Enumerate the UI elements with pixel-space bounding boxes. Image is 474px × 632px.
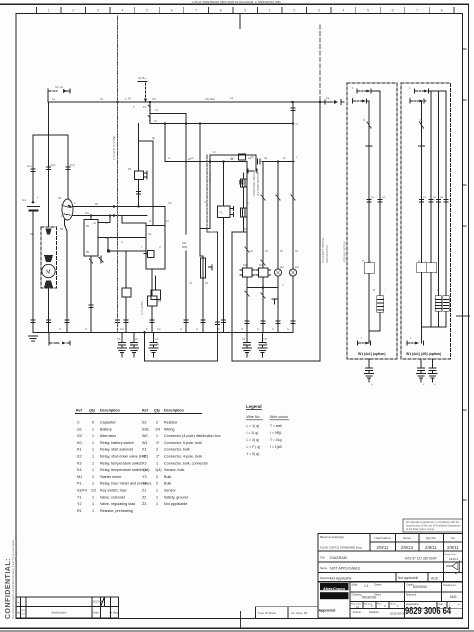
svg-text:1: 1 [92, 441, 94, 445]
box2 capacitor b [428, 359, 437, 382]
svg-text:C2: C2 [134, 337, 138, 341]
svg-text:P1: P1 [77, 482, 82, 486]
svg-text:1a: 1a [326, 96, 330, 100]
wire S1-30 to K1 [164, 207, 166, 226]
svg-text:C: C [287, 327, 289, 331]
box2 wire 4 resistor [443, 91, 449, 327]
svg-text:Battery: Battery [100, 427, 112, 431]
svg-text:Modification: Modification [52, 611, 67, 615]
TITLEBLOCK [318, 534, 463, 619]
svg-text:Wire colour: Wire colour [270, 415, 289, 419]
svg-text:X1: X1 [142, 448, 147, 452]
wire K0 30 out [98, 237, 146, 239]
small boxes left of connector [239, 154, 246, 160]
capacitor C5 [258, 333, 267, 358]
svg-text:2: 2 [156, 482, 158, 486]
svg-text:4: 4 [343, 8, 345, 12]
capacitor C2 [130, 333, 139, 358]
svg-text:Valve, regulating load: Valve, regulating load [100, 502, 135, 506]
wire x217 to loop A [217, 232, 219, 361]
confidential vertical text [5, 539, 18, 619]
option box W1 dashed [347, 83, 397, 359]
svg-text:Ca: Ca [120, 327, 124, 331]
svg-text:H2: H2 [295, 265, 299, 269]
svg-text:of the Atlas Copco Group.: of the Atlas Copco Group. [406, 528, 435, 531]
svg-text:P1: P1 [128, 167, 132, 171]
svg-text:Y3: Y3 [142, 475, 147, 479]
svg-text:Sensor: Sensor [164, 489, 176, 493]
svg-text:Drawing no.: Drawing no. [444, 584, 457, 587]
wire key switch feeder [67, 135, 69, 199]
wire relay link [247, 287, 278, 289]
svg-text:AXS 57 137 330 ISSR: AXS 57 137 330 ISSR [405, 557, 437, 561]
svg-text:1: 1 [92, 434, 94, 438]
svg-text:Format: Format [353, 611, 361, 614]
battery minus connector below bus [49, 333, 70, 346]
box1 wire right [377, 91, 384, 331]
wire key switch lower contact [60, 220, 67, 333]
svg-text:6: 6 [171, 8, 173, 12]
svg-text:C: C [196, 327, 198, 331]
svg-text:Not Applicable: Not Applicable [330, 577, 352, 581]
svg-text:Starter motor: Starter motor [100, 475, 122, 479]
svg-text:3: 3 [318, 8, 320, 12]
box2 connector lower [410, 99, 426, 103]
wire K0 ground [89, 256, 93, 332]
svg-text:2: 2 [156, 475, 158, 479]
connector tick G1 [27, 164, 35, 172]
svg-text:Wire No.: Wire No. [247, 415, 261, 419]
svg-text:K3: K3 [259, 263, 263, 267]
bus3 [165, 161, 247, 163]
svg-text:Ref: Ref [76, 409, 83, 413]
long wire x200 [199, 124, 201, 257]
svg-text:8: 8 [220, 8, 222, 12]
svg-text:K0: K0 [85, 211, 89, 215]
svg-text:w: w [121, 241, 123, 244]
svg-text:Ca: Ca [157, 327, 161, 331]
svg-text:2015.08.08: 2015.08.08 [390, 612, 405, 616]
svg-text:50: 50 [95, 202, 99, 206]
fuse F2 box [148, 296, 162, 306]
svg-text:1: 1 [92, 475, 94, 479]
svg-text:X4: X4 [142, 468, 147, 472]
box2 wire 2 [427, 91, 437, 327]
svg-text:ision: ision [22, 614, 27, 616]
wire loop B bottom [232, 360, 320, 362]
svg-text:2: 2 [293, 8, 295, 12]
wire hourmeter to S1 bus [138, 180, 140, 207]
svg-text:Z2: Z2 [142, 495, 146, 499]
svg-text:Used before: Used before [374, 536, 391, 540]
svg-text:W0 (4x): W0 (4x) [208, 173, 212, 182]
dash-dot enclosure panel [207, 155, 218, 232]
svg-text:Relay, shut-down valve (H.P.): Relay, shut-down valve (H.P.) [100, 455, 148, 459]
svg-text:1/2: 1/2 [91, 489, 96, 493]
wire key switch contact 30 [73, 206, 166, 208]
svg-text:2: 2 [156, 448, 158, 452]
svg-text:1: 1 [269, 8, 271, 12]
svg-text:F4: F4 [143, 105, 147, 109]
svg-text:C: C [241, 327, 243, 331]
svg-text:C: C [59, 327, 61, 331]
svg-text:Alternator: Alternator [100, 434, 117, 438]
svg-text:H1: H1 [280, 265, 284, 269]
sensor connector S3 [241, 155, 258, 232]
svg-text:M1: M1 [30, 232, 34, 236]
svg-text:Key switch, fuse: Key switch, fuse [100, 489, 127, 493]
svg-text:1: 1 [92, 502, 94, 506]
svg-text:0.75-GY/0.75-GY/BK: 0.75-GY/0.75-GY/BK [112, 136, 116, 160]
junction arrows [113, 205, 117, 208]
svg-text:Valve, solenoid: Valve, solenoid [100, 495, 125, 499]
svg-text:Connector, bulk: Connector, bulk [164, 448, 190, 452]
wire K2 ground [245, 277, 249, 332]
svg-text:L = 3( q): L = 3( q) [247, 438, 260, 442]
svg-text:9: 9 [244, 8, 246, 12]
svg-text:C1: C1 [117, 337, 121, 341]
relay K0 coil box [84, 211, 98, 256]
svg-text:Qty: Qty [154, 409, 160, 413]
wire loop B feed [232, 231, 247, 233]
svg-text:S1: S1 [58, 196, 62, 200]
svg-text:X: X [362, 259, 364, 263]
wire S1-15 to K1 [145, 223, 147, 226]
solenoid valve Y1 [218, 162, 234, 333]
svg-text:1: 1 [92, 495, 94, 499]
svg-text:Connector, 9-pole, bulk: Connector, 9-pole, bulk [164, 441, 202, 445]
svg-text:Y1: Y1 [219, 211, 223, 215]
svg-text:No: No [451, 536, 455, 540]
svg-text:S2: S2 [142, 421, 147, 425]
striped resistor R1 [200, 256, 212, 332]
svg-text:Safety, ground: Safety, ground [164, 495, 188, 499]
wire fuse to ground bus [150, 306, 154, 332]
svg-text:C3: C3 [155, 337, 159, 341]
node junction on bus [116, 101, 118, 103]
svg-text:80206910: 80206910 [413, 585, 427, 589]
relay K2 [240, 162, 255, 278]
revision table [16, 597, 120, 618]
wire key switch contact 15 [73, 215, 148, 217]
svg-text:1: 1 [156, 495, 158, 499]
svg-text:G2 B+: G2 B+ [138, 76, 146, 80]
svg-text:G1: G1 [22, 198, 26, 202]
svg-text:2/9/11: 2/9/11 [425, 545, 437, 550]
svg-text:30: 30 [105, 236, 109, 240]
box1 wire left [365, 101, 375, 331]
connector ticks above bus left [31, 320, 120, 323]
wire supply stub [47, 91, 49, 102]
svg-text:F5: F5 [152, 97, 156, 101]
battery G1 [22, 195, 40, 211]
wire starter ground [48, 288, 50, 332]
svg-text:1919 2: 1919 2 [449, 557, 459, 561]
wire bus15 end jog [290, 123, 293, 125]
svg-text:2: 2 [72, 8, 74, 12]
svg-text:C4: C4 [242, 337, 246, 341]
svg-text:1(x): 1(x) [51, 163, 56, 167]
long wire x186 [182, 114, 188, 333]
svg-text:X3: X3 [142, 461, 147, 465]
node T junction [33, 134, 68, 136]
svg-text:Connector (4-pole) distributio: Connector (4-pole) distribution box [164, 434, 221, 438]
svg-text:K0: K0 [77, 441, 82, 445]
circuit breaker F5 [148, 114, 150, 124]
svg-text:1: 1 [92, 468, 94, 472]
svg-text:Standard: Standard [369, 611, 379, 614]
svg-text:7: 7 [195, 8, 197, 12]
svg-text:DIAGRAM: DIAGRAM [330, 556, 347, 560]
connector tick M1 [47, 163, 56, 170]
svg-text:FLUID COPCO STANDARD Dwg: FLUID COPCO STANDARD Dwg [320, 546, 362, 550]
svg-text:F: F [146, 327, 148, 331]
svg-text:G2: G2 [77, 434, 82, 438]
svg-text:1:1: 1:1 [364, 584, 369, 588]
svg-text:K4: K4 [77, 468, 82, 472]
svg-text:4: 4 [122, 8, 124, 12]
svg-text:W1 (4x1) (4G) (option): W1 (4x1) (4G) (option) [406, 352, 441, 356]
vertical wire labels [112, 136, 347, 315]
box1 connector lower [353, 99, 369, 103]
aux device box [122, 251, 131, 332]
option box W2 dashed [401, 83, 451, 359]
svg-text:Relay, start solenoid: Relay, start solenoid [100, 448, 133, 452]
svg-text:Title: Title [320, 556, 325, 560]
svg-text:AND OPTIONS: AND OPTIONS [325, 245, 329, 263]
wire x165 drop to bus3 [164, 124, 166, 162]
svg-text:1: 1 [156, 489, 158, 493]
svg-text:K3: K3 [77, 461, 82, 465]
wire option return [319, 102, 321, 361]
svg-text:1(x): 1(x) [27, 164, 32, 168]
svg-text:I = 9R(L: I = 9R(L [270, 431, 282, 435]
starter motor M1 dashed box [30, 227, 57, 288]
svg-text:K2: K2 [243, 263, 247, 267]
box1 capacitor [365, 359, 374, 382]
svg-text:W1: W1 [142, 441, 148, 445]
svg-text:Approved: Approved [319, 609, 336, 613]
svg-text:C5: C5 [264, 337, 268, 341]
svg-text:C: C [77, 421, 80, 425]
bus 15 [150, 123, 290, 125]
svg-text:Resistor, preheating: Resistor, preheating [100, 509, 133, 513]
separator dash line above bus [319, 25, 321, 102]
svg-text:8: 8 [441, 8, 443, 12]
dash-dot separator x117 [117, 16, 119, 332]
svg-text:M1: M1 [77, 475, 82, 479]
svg-text:Wiring: Wiring [164, 427, 174, 431]
alternator B+ stub [128, 76, 147, 109]
lamp H1 [274, 162, 284, 277]
svg-text:1: 1 [156, 434, 158, 438]
bus +24V top [48, 101, 325, 103]
relay K3 [256, 162, 271, 278]
svg-text:or disclosed without written p: or disclosed without written permission … [15, 540, 18, 619]
svg-text:87: 87 [105, 221, 109, 225]
wire K3 ground [261, 277, 265, 332]
svg-text:4a: 4a [264, 156, 268, 160]
box2 top feed wire [429, 90, 447, 92]
svg-text:K1: K1 [148, 232, 152, 236]
svg-text:NOT APPLICABLE: NOT APPLICABLE [330, 567, 361, 571]
svg-text:Capacitor: Capacitor [100, 421, 117, 425]
svg-text:9829 3006 64: 9829 3006 64 [405, 605, 451, 617]
svg-text:Relay, temperature switch: Relay, temperature switch [100, 461, 142, 465]
svg-text:I = 2( q): I = 2( q) [247, 431, 259, 435]
svg-text:Connector, 4-pole, bulk: Connector, 4-pole, bulk [164, 455, 202, 459]
svg-text:Print: Print [377, 603, 382, 606]
svg-text:1: 1 [92, 455, 94, 459]
svg-text:3: 3 [97, 8, 99, 12]
wire jog [139, 140, 154, 142]
svg-text:AtlasCopco: AtlasCopco [322, 586, 346, 591]
wire H1 ground [276, 276, 280, 332]
svg-text:1b: 1b [188, 157, 192, 161]
svg-text:Y4: Y4 [142, 482, 147, 486]
svg-text:Drawn: Drawn [375, 584, 383, 587]
svg-text:I = 1(zB: I = 1(zB [270, 445, 283, 449]
box2 wire 1 [417, 101, 427, 327]
svg-text:2b: 2b [152, 136, 156, 140]
svg-text:Description: Description [164, 409, 184, 413]
svg-text:1: 1 [92, 482, 94, 486]
titleblock left extension cells [256, 607, 319, 618]
box1 connector upper [357, 89, 380, 93]
wire battery feeder [48, 102, 50, 135]
svg-text:1: 1 [92, 461, 94, 465]
svg-text:Qty: Qty [89, 409, 95, 413]
svg-text:Y1: Y1 [77, 495, 82, 499]
svg-text:5a: 5a [244, 227, 248, 231]
svg-text:Name: Name [320, 566, 327, 570]
connector arrow to options [325, 96, 344, 105]
svg-text:Z1: Z1 [142, 489, 146, 493]
wire starter feeder [48, 135, 50, 227]
svg-text:1: 1 [92, 427, 94, 431]
svg-text:X2: X2 [142, 455, 147, 459]
svg-text:Bulk: Bulk [164, 482, 171, 486]
svg-text:W1 (4x1) (option): W1 (4x1) (option) [358, 352, 386, 356]
svg-text:1(x): 1(x) [70, 163, 75, 167]
svg-text:K1: K1 [77, 448, 82, 452]
svg-text:r: r [385, 288, 386, 292]
box2 wire 3 resistor [436, 91, 442, 327]
lamp H2 [289, 102, 299, 276]
svg-text:5: 5 [146, 8, 148, 12]
svg-text:C: C [272, 327, 274, 331]
junction dot loopA [143, 331, 146, 334]
wire tap 113 [150, 113, 186, 115]
svg-text:C: C [257, 327, 259, 331]
misc small labels [59, 96, 289, 331]
OPTION BOXES [347, 83, 451, 382]
option labels small [352, 86, 439, 292]
svg-text:R1: R1 [77, 509, 82, 513]
key switch S1 [58, 196, 73, 220]
svg-text:FOR W1 OPTION: FOR W1 OPTION [343, 241, 347, 262]
svg-text:Resistor: Resistor [164, 421, 178, 425]
wire K0 aux with junction square [107, 250, 110, 253]
svg-text:Checking: Checking [352, 594, 363, 597]
wire battery minus [32, 212, 34, 333]
svg-text:1: 1 [156, 502, 158, 506]
svg-text:S: S [363, 118, 365, 122]
svg-text:2a: 2a [230, 157, 234, 161]
svg-text:1: 1 [92, 509, 94, 513]
svg-text:Not applicable: Not applicable [398, 576, 418, 580]
box1 bottom join [358, 331, 381, 345]
wire battery drop [32, 135, 34, 203]
svg-text:Type Of Sheet: Type Of Sheet [258, 611, 276, 615]
svg-text:Prong Class: Prong Class [445, 553, 458, 556]
wire loop A [145, 333, 218, 362]
svg-text:L = 1( q): L = 1( q) [247, 424, 260, 428]
svg-text:Approved: Approved [406, 594, 417, 597]
relay K1 box [144, 226, 165, 270]
svg-text:2/9/11: 2/9/11 [447, 545, 459, 550]
svg-text:Legend: Legend [246, 404, 262, 409]
svg-text:Based on drawing(s): Based on drawing(s) [320, 535, 344, 539]
fuse F1 connector at top of supply [48, 85, 70, 93]
svg-text:C: C [85, 327, 87, 331]
svg-text:1: 1 [48, 8, 50, 12]
svg-text:Sensor, bulk: Sensor, bulk [164, 468, 184, 472]
svg-text:Date: Date [93, 611, 99, 615]
svg-text:Bulk: Bulk [164, 475, 171, 479]
svg-text:C: C [218, 327, 220, 331]
svg-text:Relay, battery switch: Relay, battery switch [100, 441, 134, 445]
svg-text:C: C [180, 327, 182, 331]
atlas copco logo [319, 583, 349, 613]
svg-text:No: No [17, 611, 21, 615]
svg-text:7: 7 [416, 8, 418, 12]
svg-text:X: X [418, 259, 420, 263]
svg-text:X1 1a: X1 1a [55, 85, 63, 89]
svg-text:2/9/11: 2/9/11 [377, 545, 389, 550]
svg-text:5: 5 [92, 421, 94, 425]
prohibited substances note box [403, 519, 463, 532]
box2 bottom join [407, 327, 446, 345]
svg-text:Connector, bulk, connector: Connector, bulk, connector [164, 461, 209, 465]
svg-text:1*: 1* [156, 455, 160, 459]
svg-text:TO SAFETY SWITCH: TO SAFETY SWITCH [321, 238, 325, 263]
svg-text:Z3: Z3 [142, 502, 146, 506]
svg-text:Int./Appr.: Int./Appr. [109, 611, 120, 615]
ground bus [33, 332, 293, 334]
diode symbol [272, 299, 277, 304]
svg-text:R: R [373, 288, 375, 292]
svg-text:Memo: Memo [375, 594, 382, 597]
svg-text:+: + [37, 195, 39, 199]
svg-text:MLB: MLB [450, 595, 457, 599]
scattered wire number labels [52, 97, 451, 386]
wire K1 to fuse [151, 269, 153, 296]
wire K0 87 jog up [98, 222, 110, 224]
svg-text:1(4): 1(4) [155, 468, 162, 472]
svg-text:M: M [46, 270, 50, 276]
svg-text:Scale: Scale [352, 584, 359, 587]
circuit breaker F4 [143, 97, 156, 114]
svg-text:J = 5( q): J = 5( q) [247, 452, 260, 456]
box2 connector upper [415, 89, 438, 93]
wire H2 ground [291, 276, 295, 332]
svg-text:5: 5 [367, 8, 369, 12]
svg-text:Qty./No: Qty./No [426, 536, 436, 540]
svg-text:Int. Issue: 05: Int. Issue: 05 [291, 611, 307, 615]
svg-text:1*: 1* [156, 441, 160, 445]
svg-text:1a: 1a [230, 96, 234, 100]
